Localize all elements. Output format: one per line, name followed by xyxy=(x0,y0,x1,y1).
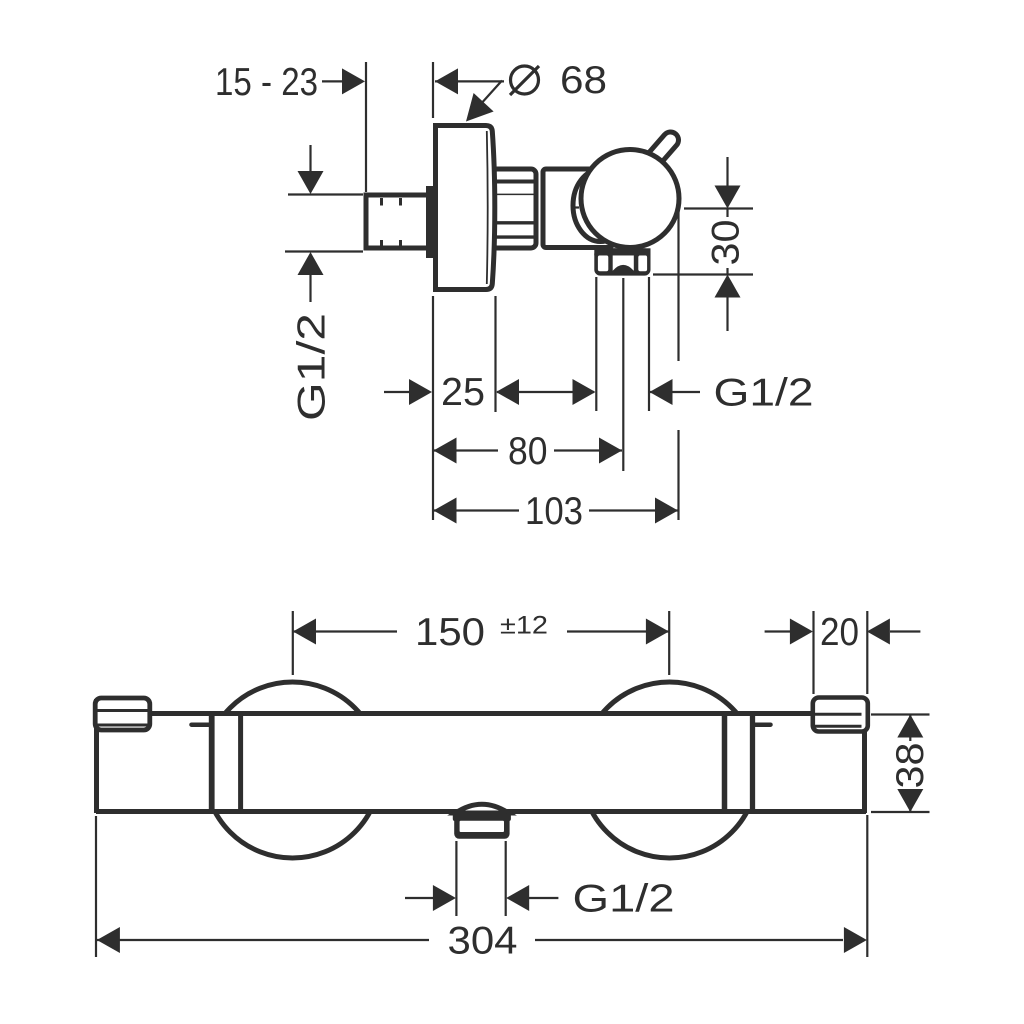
svg-text:G1/2: G1/2 xyxy=(291,313,334,421)
svg-text:68: 68 xyxy=(560,59,607,102)
svg-text:15 - 23: 15 - 23 xyxy=(215,61,318,104)
svg-text:103: 103 xyxy=(525,490,583,533)
svg-text:25: 25 xyxy=(441,371,485,414)
svg-text:38: 38 xyxy=(889,743,932,789)
svg-text:150: 150 xyxy=(415,611,485,654)
svg-text:G1/2: G1/2 xyxy=(573,878,675,921)
svg-text:±12: ±12 xyxy=(500,612,548,640)
svg-text:304: 304 xyxy=(448,920,518,963)
svg-text:G1/2: G1/2 xyxy=(714,372,814,415)
svg-text:20: 20 xyxy=(820,611,859,654)
svg-text:80: 80 xyxy=(508,430,548,473)
svg-text:30: 30 xyxy=(705,220,748,266)
